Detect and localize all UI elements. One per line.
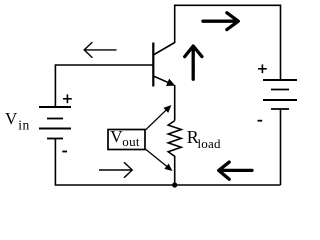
- svg-text:V: V: [110, 127, 123, 146]
- svg-text:in: in: [18, 117, 30, 132]
- svg-text:out: out: [122, 134, 140, 149]
- svg-text:V: V: [5, 109, 18, 128]
- svg-text:load: load: [198, 136, 221, 151]
